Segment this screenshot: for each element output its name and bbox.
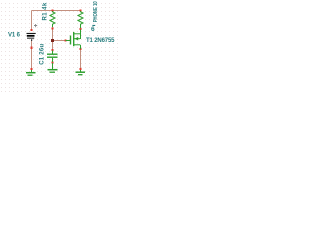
svg-text:6: 6: [91, 26, 95, 33]
svg-text:PHONE 10: PHONE 10: [93, 1, 99, 22]
svg-text:C1 26u: C1 26u: [40, 44, 46, 65]
svg-text:T1 2N6755: T1 2N6755: [86, 38, 115, 44]
svg-text:R1 4k: R1 4k: [43, 2, 49, 20]
svg-text:V1 6: V1 6: [8, 33, 21, 39]
